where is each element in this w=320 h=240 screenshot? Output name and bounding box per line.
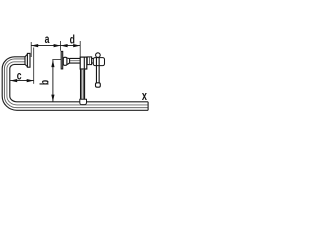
svg-text:b: b — [39, 80, 52, 85]
extension line c right — [33, 48, 35, 84]
dimension d — [61, 44, 81, 47]
movable pad — [61, 51, 69, 69]
rail end cap — [147, 102, 149, 111]
extension line a/d shared — [60, 41, 62, 51]
extension line a left — [30, 42, 32, 57]
tommy bar bottom knob — [96, 83, 101, 87]
dimension b — [51, 60, 54, 102]
wire rail top edge — [10, 64, 148, 101]
extension line d right — [79, 41, 81, 57]
svg-text:d: d — [70, 34, 75, 47]
spindle nut block on sliding arm — [80, 57, 87, 69]
sliding arm foot over rail — [80, 99, 87, 104]
wire outer contour line — [2, 57, 148, 111]
dimension c — [10, 79, 34, 82]
tommy bar top ball — [96, 53, 101, 58]
dimension a — [31, 44, 60, 47]
wire inner contour line 2 — [4, 59, 148, 108]
extension line b top — [52, 59, 61, 61]
fixed jaw pad — [25, 53, 30, 67]
svg-text:x: x — [142, 89, 148, 103]
tommy bar — [96, 56, 99, 84]
spindle — [70, 58, 94, 63]
spindle collar — [87, 57, 91, 65]
wire inner contour line 3 — [7, 62, 148, 105]
svg-text:c: c — [17, 71, 22, 84]
sliding arm — [81, 69, 85, 99]
spindle head — [93, 58, 104, 66]
clamp body: rail with bent fixed jaw, 4 contour lines — [2, 57, 148, 111]
svg-text:a: a — [45, 34, 50, 47]
